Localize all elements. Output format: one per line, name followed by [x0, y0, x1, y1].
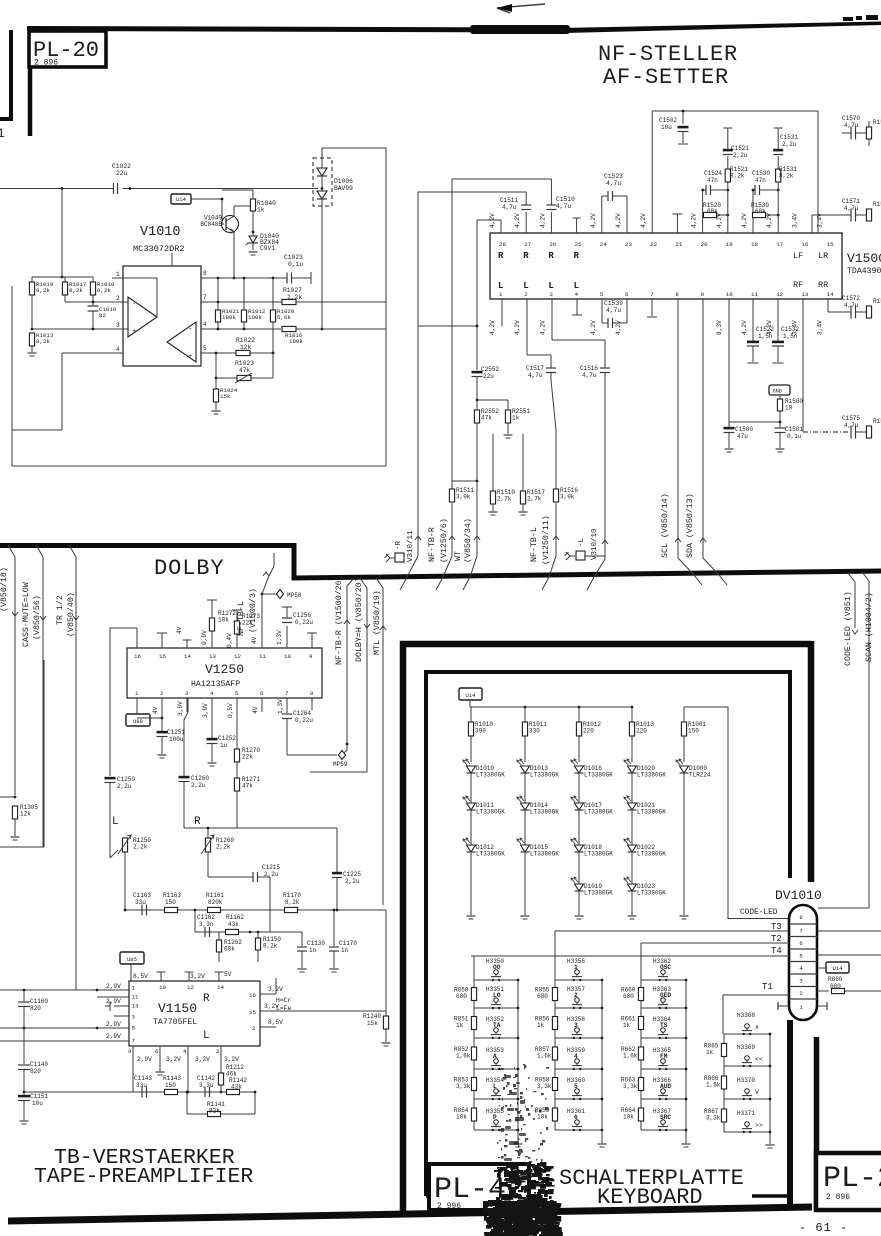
wire LED column 3 to ground	[578, 891, 580, 915]
svg-text:U85: U85	[127, 956, 137, 963]
wire CODE-LED from border	[848, 573, 855, 628]
capacitor C1575 4.7u right edge dashed feed	[803, 431, 848, 433]
PL-20 label box	[29, 31, 106, 67]
svg-text:68k: 68k	[755, 208, 766, 215]
svg-text:2,9V: 2,9V	[106, 1021, 121, 1028]
svg-text:25: 25	[575, 241, 582, 248]
svg-text:15: 15	[249, 1009, 256, 1016]
svg-text:1k: 1k	[257, 207, 265, 214]
svg-text:15k: 15k	[220, 393, 231, 400]
resistor R853 3,3k	[471, 1078, 476, 1091]
trimmer R1260 2.2k	[205, 838, 210, 852]
capacitor C1516 4.7u	[600, 367, 610, 369]
svg-text:DOLBY=H (V850/20): DOLBY=H (V850/20)	[354, 577, 364, 662]
svg-text:C1500: C1500	[735, 426, 753, 433]
wire junction row R1511 R1510	[452, 480, 477, 482]
border: top right tapered thick line	[545, 22, 881, 34]
svg-text:2,9V: 2,9V	[106, 983, 121, 990]
svg-text:1,3V: 1,3V	[276, 630, 283, 645]
wire C1225 column	[336, 828, 338, 872]
trimmer R1250 2.2k	[110, 850, 118, 858]
svg-text:R1027: R1027	[283, 287, 302, 294]
svg-text:R1022: R1022	[236, 337, 255, 344]
switch column ground	[517, 1130, 519, 1143]
wire R1017 to pin2	[65, 301, 112, 303]
wire R1240 column	[385, 910, 387, 1016]
capacitor C1140 820	[23, 1028, 25, 1064]
svg-text:3,4V: 3,4V	[791, 213, 798, 228]
svg-text:3,9k: 3,9k	[456, 494, 471, 501]
svg-text:T4: T4	[771, 946, 782, 956]
ground LED column 2	[521, 915, 530, 917]
capacitor C1251 100u on pin2	[161, 698, 163, 731]
svg-text:C1572: C1572	[842, 295, 860, 302]
svg-text:4,2V: 4,2V	[539, 213, 546, 228]
svg-text:3,2V: 3,2V	[224, 1056, 239, 1063]
wire pin7 ground stub	[651, 299, 653, 316]
svg-text:C1532: C1532	[781, 326, 799, 333]
arrow NF-TB-L dolby	[263, 572, 269, 576]
svg-text:AF-SETTER: AF-SETTER	[603, 65, 729, 90]
svg-text:C1524: C1524	[704, 170, 722, 177]
resistor R1010 390	[470, 707, 472, 722]
svg-text:KEYBOARD: KEYBOARD	[597, 1185, 703, 1210]
svg-text:14: 14	[217, 984, 224, 991]
resistor R1517 2.7k	[522, 434, 524, 491]
svg-text:12k: 12k	[20, 811, 31, 818]
svg-text:(V850/34): (V850/34)	[463, 518, 473, 563]
svg-text:10u: 10u	[32, 1100, 43, 1107]
svg-text:7: 7	[650, 291, 654, 298]
capacitor C1170 1n	[333, 910, 335, 946]
svg-text:680: 680	[456, 993, 467, 1000]
svg-text:H3371: H3371	[737, 1110, 755, 1117]
svg-text:8,2k: 8,2k	[779, 173, 794, 180]
transistor V1040 BC848B	[222, 216, 239, 233]
capacitor C1530 47n	[753, 189, 755, 191]
svg-text:(V1250/6): (V1250/6)	[439, 518, 449, 563]
svg-text:L: L	[493, 1083, 497, 1090]
switch H3356 1	[555, 979, 602, 981]
capacitor C1250 2.2u	[105, 777, 116, 780]
svg-text:15: 15	[827, 241, 834, 248]
svg-text:LT3380GK: LT3380GK	[476, 772, 505, 779]
svg-text:8,5V: 8,5V	[268, 1019, 283, 1026]
box U85 ref	[120, 952, 144, 964]
ground under R1305	[11, 836, 20, 838]
svg-text:3,3k: 3,3k	[623, 1083, 638, 1090]
svg-text:C1517: C1517	[526, 365, 544, 372]
svg-text:LT3380GK: LT3380GK	[530, 772, 559, 779]
wire U14 to transistor base	[191, 198, 222, 200]
resistor R1012 100k	[243, 278, 245, 310]
LED D1022 LT3380GK	[628, 845, 637, 852]
svg-text:2,2u: 2,2u	[191, 782, 206, 789]
svg-text:HA12135AFP: HA12135AFP	[191, 680, 240, 689]
svg-text:LT3380GK: LT3380GK	[637, 809, 666, 816]
LED D1013 LT3380GK	[521, 766, 530, 773]
svg-text:4V: 4V	[251, 636, 258, 644]
wire T4 bus	[471, 955, 789, 957]
capacitor C1510 4.7u on pin26	[550, 212, 552, 233]
IC V1500 body	[490, 233, 842, 299]
svg-text:8,2k: 8,2k	[36, 338, 50, 345]
svg-text:15k: 15k	[367, 1020, 378, 1027]
resistor R661 1k	[638, 1017, 643, 1030]
svg-text:3,2V: 3,2V	[190, 973, 205, 980]
tick pin25	[576, 218, 578, 233]
svg-text:820k: 820k	[208, 899, 223, 906]
svg-text:R1161: R1161	[206, 892, 224, 899]
wire DOLBY=H line	[310, 578, 367, 772]
svg-text:1k: 1k	[623, 1022, 631, 1029]
arrow CODE-LED down	[852, 630, 858, 634]
resistor R1272 18k on pin13	[211, 631, 213, 648]
svg-text:0,9V: 0,9V	[201, 630, 208, 645]
wire D1006 bottom junction	[321, 206, 323, 329]
resistor R1161 820k	[208, 907, 221, 912]
svg-text:2: 2	[160, 690, 164, 697]
svg-text:LT3380GK: LT3380GK	[530, 809, 559, 816]
svg-text:4,2V: 4,2V	[489, 320, 496, 335]
wire LED supply bus	[469, 700, 471, 707]
svg-text:6: 6	[260, 690, 264, 697]
svg-text:9: 9	[128, 1048, 132, 1055]
svg-text:4: 4	[183, 1048, 187, 1055]
svg-text:4V: 4V	[252, 706, 259, 714]
resistor R1530 68k	[752, 190, 754, 215]
svg-text:T1: T1	[762, 982, 773, 992]
resistor R2552 47k	[476, 399, 479, 402]
svg-text:4,2V: 4,2V	[590, 320, 597, 335]
svg-text:WT: WT	[454, 551, 463, 561]
wire T1 bus	[723, 994, 789, 996]
ground under C1130	[298, 968, 307, 970]
PL-2 section left border	[814, 1037, 820, 1210]
wire LED column 4 to ground	[631, 891, 633, 915]
wire U85 stub	[130, 964, 132, 981]
svg-text:LT3380GK: LT3380GK	[637, 890, 666, 897]
svg-text:U14: U14	[176, 196, 187, 203]
svg-text:R15: R15	[873, 201, 881, 208]
svg-text:47n: 47n	[707, 177, 718, 184]
IC V1150 body	[129, 981, 260, 1046]
svg-text:C1251: C1251	[167, 729, 185, 736]
svg-text:TR 1/2: TR 1/2	[55, 595, 65, 625]
svg-text:7: 7	[799, 928, 802, 935]
svg-text:4: 4	[575, 291, 579, 298]
svg-text:4V: 4V	[176, 626, 183, 634]
svg-text:1,6k: 1,6k	[706, 1082, 721, 1089]
partial resistor right edge 3	[866, 306, 871, 318]
switch column rail from bus	[473, 956, 475, 980]
svg-text:10: 10	[785, 405, 793, 412]
capacitor C1256 0.22u on pin10	[286, 626, 288, 648]
svg-text:C1264: C1264	[293, 710, 311, 717]
svg-text:L: L	[112, 816, 119, 828]
svg-text:8: 8	[310, 690, 314, 697]
svg-text:C1142: C1142	[197, 1075, 215, 1082]
left sub-box thin border	[43, 660, 45, 847]
svg-text:C1530: C1530	[752, 170, 770, 177]
svg-text:LT3380GK: LT3380GK	[584, 890, 613, 897]
switch H3367 SRC	[641, 1129, 686, 1131]
svg-text:5: 5	[799, 953, 802, 960]
svg-text:SDA (V850/13): SDA (V850/13)	[685, 493, 695, 558]
svg-text:11: 11	[132, 994, 139, 1001]
resistor R867 3,3k	[721, 1109, 726, 1122]
op-amp B triangle	[167, 322, 196, 362]
svg-text:C1225: C1225	[343, 871, 361, 878]
svg-text:3: 3	[185, 690, 189, 697]
svg-text:C2552: C2552	[481, 366, 499, 373]
wire NF-TB-R line to C1510	[452, 178, 551, 180]
switch column rails	[473, 980, 475, 1130]
svg-text:4,2V: 4,2V	[741, 320, 748, 335]
svg-text:4,2V: 4,2V	[691, 213, 698, 228]
svg-text:TA: TA	[493, 1022, 501, 1029]
svg-text:C1170: C1170	[339, 940, 357, 947]
svg-text:4,7u: 4,7u	[502, 204, 517, 211]
resistor R854 10k	[471, 1108, 476, 1121]
capacitor C1010 82	[88, 305, 99, 307]
resistor R1520 68k	[702, 190, 704, 215]
svg-text:43k: 43k	[231, 1084, 242, 1091]
svg-text:100u: 100u	[169, 736, 184, 743]
svg-text:C1143: C1143	[134, 1075, 152, 1082]
capacitor C1151 10u	[23, 1091, 26, 1094]
svg-text:3,3n: 3,3n	[199, 921, 214, 928]
switch H3351 LO	[474, 1007, 518, 1009]
svg-text:10k: 10k	[456, 1114, 467, 1121]
switch column rail from bus	[554, 931, 556, 980]
ground under C1252	[208, 762, 217, 764]
svg-text:C1531: C1531	[780, 134, 798, 141]
resistor R1273 22k on pin12	[236, 634, 238, 648]
switch H3352 TA	[474, 1037, 518, 1039]
resistor R856 1k	[552, 1017, 557, 1030]
symbol -R pickup	[390, 557, 395, 559]
ground pin6	[159, 1056, 161, 1071]
switch column ground	[601, 1130, 603, 1143]
resistor R1027 1.2k on pin7 row	[282, 299, 296, 304]
svg-text:L: L	[548, 281, 553, 291]
wire left feeds	[0, 989, 97, 991]
wire pin11 NF-TB-L junction	[261, 594, 263, 648]
resistor R1019 8.2k	[29, 282, 34, 295]
svg-text:2 896: 2 896	[826, 1193, 850, 1202]
resistor R1021 180k	[217, 278, 219, 310]
IC V1150 top pins	[160, 972, 162, 981]
svg-text:150: 150	[165, 1082, 176, 1089]
svg-text:D1006: D1006	[334, 178, 353, 185]
svg-text:<<: <<	[755, 1056, 763, 1063]
border: partial box at far left edge	[9, 30, 13, 121]
wire WT line upper	[476, 220, 478, 370]
svg-text:18k: 18k	[218, 617, 229, 624]
svg-text:17: 17	[776, 241, 783, 248]
wire pin6 stub	[261, 698, 263, 712]
connector DV1010 capsule	[789, 905, 817, 1020]
switch H3362 OSC	[641, 979, 686, 981]
svg-text:C1250: C1250	[117, 776, 135, 783]
svg-text:LT3380GK: LT3380GK	[476, 851, 505, 858]
svg-text:AUD: AUD	[660, 1083, 671, 1090]
svg-text:C1022: C1022	[112, 163, 131, 170]
svg-text:3,4V: 3,4V	[817, 320, 824, 335]
svg-text:2 996: 2 996	[437, 1202, 461, 1211]
wire pin8 SCL line	[677, 299, 679, 558]
svg-text:1: 1	[116, 271, 120, 278]
svg-text:7: 7	[203, 294, 207, 301]
svg-text:V1150: V1150	[158, 1001, 197, 1016]
svg-text:LT3380GK: LT3380GK	[584, 809, 613, 816]
svg-text:1,6k: 1,6k	[623, 1053, 638, 1060]
resistor R1516 3.9k	[553, 489, 558, 502]
svg-text:4,7u: 4,7u	[606, 180, 621, 187]
switch H3353 A	[474, 1068, 518, 1070]
svg-text:12: 12	[234, 653, 241, 660]
ground under C1500	[725, 448, 734, 450]
capacitor C1572 4.7u right edge	[827, 299, 829, 312]
svg-text:R1240: R1240	[363, 1013, 381, 1020]
ground under C1251	[158, 754, 167, 756]
svg-text:4,7u: 4,7u	[844, 122, 859, 129]
svg-text:LT3380GK: LT3380GK	[530, 851, 559, 858]
resistor R1212 46k	[220, 1056, 222, 1073]
svg-text:150: 150	[165, 899, 176, 906]
wire T2 bus	[641, 942, 789, 944]
svg-text:1k: 1k	[456, 1022, 464, 1029]
scan dirt smudges	[505, 1075, 511, 1078]
svg-text:DV1010: DV1010	[775, 888, 822, 903]
svg-text:11: 11	[751, 291, 758, 298]
svg-text:220: 220	[583, 728, 594, 735]
svg-text:8,2k: 8,2k	[285, 899, 300, 906]
keyboard section inner thick border	[426, 672, 790, 1196]
wire pin9 SDA line	[702, 299, 704, 558]
svg-text:8,2k: 8,2k	[263, 943, 278, 950]
switch column rails	[554, 980, 556, 1130]
svg-text:BAV99: BAV99	[334, 185, 353, 192]
svg-text:LT3380GK: LT3380GK	[584, 851, 613, 858]
svg-text:L: L	[523, 281, 528, 291]
wire NF-TB-L line	[551, 380, 556, 489]
svg-text:8: 8	[675, 291, 679, 298]
svg-text:5: 5	[574, 1083, 578, 1090]
switch column4 rails	[723, 1034, 725, 1132]
top rail wire NF section	[652, 110, 818, 112]
wire emitter down to opamp out row	[233, 232, 235, 278]
resistor R1017 8.2k	[62, 282, 67, 295]
wire cell3 to R860	[817, 990, 829, 992]
svg-text:4,7u: 4,7u	[844, 205, 859, 212]
svg-text:U14: U14	[832, 965, 843, 972]
wire pin8 stub	[311, 698, 313, 710]
svg-text:22k: 22k	[242, 754, 253, 761]
resistor R1162 43k	[226, 929, 239, 934]
LED D1016 LT3380GK	[575, 766, 584, 773]
svg-text:(V1250/11): (V1250/11)	[541, 515, 551, 565]
wire SCL line lower	[677, 299, 679, 558]
svg-text:R: R	[498, 251, 504, 261]
svg-text:330: 330	[529, 728, 540, 735]
svg-text:C1501: C1501	[785, 426, 803, 433]
wire -L line lower	[604, 558, 606, 559]
svg-text:15: 15	[159, 653, 166, 660]
capacitor C1500 47u	[728, 422, 730, 427]
capacitor C1143 33u	[141, 1087, 143, 1098]
svg-text:1n: 1n	[341, 947, 349, 954]
svg-text:MC33072DR2: MC33072DR2	[133, 244, 185, 254]
svg-text:1k: 1k	[706, 1049, 714, 1056]
wire LED column 2 to ground	[524, 852, 526, 915]
svg-text:4,7u: 4,7u	[528, 372, 543, 379]
LED D1000 TLR224	[680, 766, 689, 773]
box U80 ref	[126, 714, 150, 726]
svg-text:C1575: C1575	[842, 415, 860, 422]
wire D1006 top to box frame	[321, 148, 323, 160]
capacitor C1162 3.3n	[204, 927, 206, 937]
wire main bus into PL-20	[0, 188, 114, 190]
wire left signal TR 1/2	[69, 545, 76, 990]
resistor R860 680	[832, 988, 845, 993]
switch column4 ground	[769, 1132, 771, 1144]
wire NF-TB-R vertical line	[451, 179, 453, 489]
wire pin18 riser	[752, 190, 754, 233]
svg-text:8,2k: 8,2k	[730, 173, 745, 180]
svg-text:0,22u: 0,22u	[295, 717, 313, 724]
partial resistor right edge 2	[866, 209, 871, 221]
box U14 ref keyboard	[459, 688, 482, 700]
wire pin1 to U80	[136, 698, 138, 714]
resistor R1016 180k on pin4 row	[282, 326, 296, 331]
ground under C1170	[330, 968, 339, 970]
svg-text:4,2V: 4,2V	[640, 213, 647, 228]
svg-text:OSC: OSC	[660, 964, 671, 971]
tick pin21	[676, 214, 678, 233]
svg-text:TA7705FEL: TA7705FEL	[153, 1018, 197, 1027]
wire NF-TB-R (V1500/26) line	[347, 578, 354, 750]
svg-text:R: R	[523, 251, 529, 261]
svg-text:4: 4	[210, 690, 214, 697]
svg-text:8,2k: 8,2k	[69, 287, 83, 294]
svg-text:1: 1	[132, 985, 136, 992]
wire pin3 to C1516	[551, 299, 553, 340]
resistor R1500 10	[779, 396, 781, 399]
svg-text:8,2k: 8,2k	[36, 287, 50, 294]
svg-text:C1215: C1215	[262, 864, 280, 871]
svg-text:2: 2	[799, 990, 802, 997]
wire pin17 riser	[777, 182, 779, 233]
svg-text:H3368: H3368	[737, 1012, 755, 1019]
svg-text:TLR224: TLR224	[689, 772, 711, 779]
svg-text:3: 3	[132, 1014, 136, 1021]
wire pin4 column	[187, 1056, 189, 1092]
arrow -R	[415, 536, 421, 540]
svg-text:6: 6	[574, 1114, 578, 1121]
svg-text:3: 3	[799, 978, 802, 985]
svg-text:4: 4	[203, 321, 207, 328]
svg-text:C1252: C1252	[218, 735, 236, 742]
svg-text:4,2V: 4,2V	[539, 320, 546, 335]
svg-text:R15: R15	[873, 119, 881, 126]
partial resistor right edge 4	[866, 426, 871, 438]
svg-text:180k: 180k	[289, 338, 303, 345]
svg-text:5V: 5V	[224, 971, 232, 978]
PL-42 label box	[429, 1164, 529, 1210]
svg-text:4,7u: 4,7u	[606, 307, 621, 314]
